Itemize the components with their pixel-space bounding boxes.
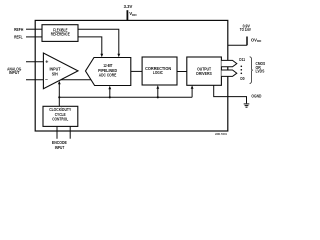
svg-text:D0: D0 xyxy=(240,76,245,81)
svg-text:2241 TA01: 2241 TA01 xyxy=(215,133,227,136)
bus arrow D11 xyxy=(221,60,236,66)
svg-text:ADC CORE: ADC CORE xyxy=(99,73,117,78)
wire reference upper to ADC core xyxy=(78,29,119,54)
wire clock to correction logic xyxy=(157,88,159,98)
block FLEXIBLE REFERENCE xyxy=(42,25,78,42)
svg-text:TO 3.6V: TO 3.6V xyxy=(240,27,251,32)
wire encode - xyxy=(69,126,71,138)
brace xyxy=(250,57,253,84)
svg-text:OVDD: OVDD xyxy=(251,37,262,43)
wire clock vertical to S/H xyxy=(58,83,60,106)
wire OVDD xyxy=(228,44,247,46)
amplifier INPUT S/H xyxy=(43,53,78,89)
wire clock bus xyxy=(59,96,192,98)
wire correction logic to output drivers xyxy=(177,71,187,73)
svg-text:REFH: REFH xyxy=(14,27,23,32)
IC boundary box xyxy=(35,20,228,131)
svg-text:REFL: REFL xyxy=(14,34,23,39)
svg-text:D11: D11 xyxy=(239,57,245,62)
wire reference lower to ADC core xyxy=(78,37,102,54)
svg-text:INPUT: INPUT xyxy=(55,145,65,150)
block CLOCK/DUTY CYCLE CONTROL xyxy=(43,106,78,126)
wire OGND xyxy=(214,85,247,103)
block OUTPUT DRIVERS xyxy=(187,57,222,85)
svg-text:S/H: S/H xyxy=(52,71,58,76)
ground symbol xyxy=(244,103,250,105)
junction dot bus/ADC xyxy=(109,96,111,98)
block CORRECTION LOGIC xyxy=(142,57,177,85)
junction dot clock/bus xyxy=(58,96,60,98)
svg-text:3.3V: 3.3V xyxy=(124,4,133,9)
svg-text:DRIVERS: DRIVERS xyxy=(196,71,212,76)
svg-text:LVDS: LVDS xyxy=(256,68,265,73)
pin VDD tick xyxy=(126,10,128,20)
wire REFL xyxy=(26,36,42,38)
dots between D11 and D0 xyxy=(241,66,243,68)
wire REFH xyxy=(26,28,42,30)
wire ADC core to correction logic xyxy=(131,70,142,72)
wire analog input - (continues under S/H into ADC core) xyxy=(26,79,95,81)
svg-text:OGND: OGND xyxy=(251,94,261,99)
wire clock to output drivers xyxy=(191,88,193,98)
svg-text:INPUT: INPUT xyxy=(9,70,20,75)
wire analog input + xyxy=(26,61,43,63)
svg-text:VDD: VDD xyxy=(129,11,137,17)
wire clock to ADC core xyxy=(109,88,111,97)
wire encode + xyxy=(56,126,58,138)
svg-text:+: + xyxy=(45,59,48,65)
svg-text:CONTROL: CONTROL xyxy=(52,117,68,122)
svg-text:REFERENCE: REFERENCE xyxy=(51,31,70,36)
svg-text:LOGIC: LOGIC xyxy=(153,70,164,75)
svg-text:−: − xyxy=(45,77,48,83)
bus arrow D0 xyxy=(221,70,236,76)
block 12-BIT PIPELINED ADC CORE xyxy=(86,58,131,86)
junction dot bus/correction xyxy=(157,96,159,98)
